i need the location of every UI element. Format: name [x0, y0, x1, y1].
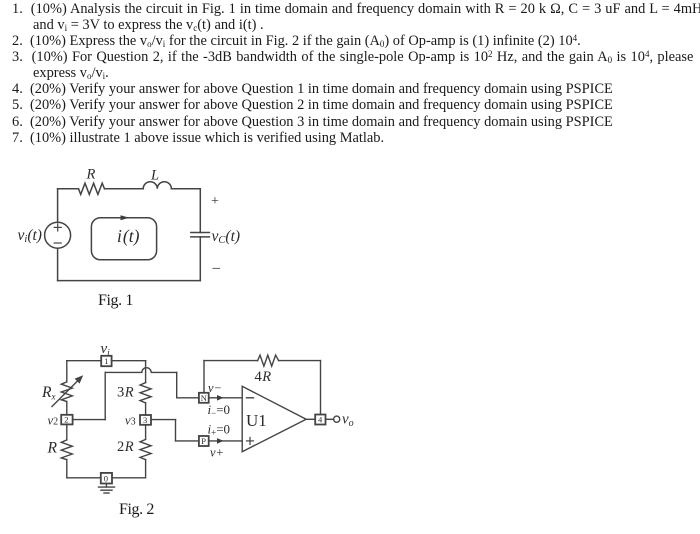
svg-text:N: N — [201, 393, 207, 403]
arrow N to op-amp minus input — [209, 397, 243, 399]
node P box — [199, 436, 209, 446]
capacitor C plates — [191, 232, 210, 234]
wire right vertical lower — [199, 237, 201, 281]
svg-text:2R: 2R — [117, 439, 134, 455]
svg-text:vi: vi — [101, 341, 111, 359]
wire from node3 right — [151, 419, 176, 421]
svg-text:v3: v3 — [125, 414, 136, 428]
resistor 3R zigzag — [140, 383, 151, 403]
svg-text:v2: v2 — [48, 414, 59, 428]
wire top left from node 1 to left corner — [67, 360, 101, 362]
svg-text:3: 3 — [143, 415, 147, 425]
svg-text:v−: v− — [208, 381, 222, 395]
wire apex to node 4 — [306, 418, 315, 420]
wire left vertical upper — [66, 361, 68, 382]
svg-text:vi(t): vi(t) — [18, 227, 42, 245]
node 4 box — [315, 415, 325, 425]
wire right vertical upper — [199, 189, 201, 233]
wire top from node 1 to 3R corner — [112, 360, 146, 362]
wire into node N — [177, 397, 199, 399]
wire v2 to N horizontal with hop — [105, 368, 177, 373]
svg-text:0: 0 — [104, 474, 108, 484]
wire bottom left — [67, 477, 101, 479]
svg-text:U1: U1 — [246, 411, 267, 430]
node 3 box — [140, 415, 151, 425]
svg-text:Rx: Rx — [41, 384, 55, 402]
wire from node2 right — [73, 419, 106, 421]
svg-text:v+: v+ — [210, 446, 224, 460]
svg-text:+: + — [211, 194, 219, 209]
svg-text:3R: 3R — [117, 385, 134, 401]
minus sign inside source — [54, 242, 61, 244]
svg-text:R: R — [47, 440, 58, 457]
svg-text:4: 4 — [318, 415, 323, 425]
op-amp plus sign — [247, 437, 254, 444]
wire bottom of Fig.1 loop — [58, 280, 201, 282]
wire into node P — [176, 440, 199, 442]
node 1 box — [101, 356, 111, 366]
wire top right segment — [171, 188, 200, 190]
figure 1 schematic — [0, 160, 260, 320]
arrow of variable resistor Rx — [52, 379, 80, 407]
question text block — [12, 2, 700, 16]
wire left vertical to bottom — [66, 460, 68, 478]
voltage source vi circle — [45, 222, 71, 248]
loop arrow head — [121, 215, 130, 220]
resistor Rx zigzag — [61, 382, 72, 402]
op-amp minus sign — [247, 397, 254, 399]
output terminal circle — [334, 416, 340, 422]
svg-text:P: P — [201, 436, 206, 446]
node 0 box — [101, 473, 112, 484]
wire 3R vertical upper — [145, 361, 147, 383]
caption Fig. 1 — [98, 293, 133, 309]
wire bottom left of Fig.1 loop — [57, 248, 59, 280]
resistor R zigzag (left branch) — [61, 440, 72, 460]
wire node 4 to output terminal — [326, 418, 334, 420]
wire left vertical below node 2 — [66, 424, 68, 440]
caption Fig. 2 — [119, 502, 154, 518]
svg-text:i+=0: i+=0 — [208, 422, 231, 438]
wire 2R vertical to bottom — [145, 460, 147, 478]
wire v3P vertical down — [175, 420, 177, 441]
resistor R zigzag — [79, 183, 105, 194]
feedback top wire left segment — [204, 360, 258, 362]
svg-text:2: 2 — [64, 415, 68, 425]
figure 2 schematic — [30, 335, 370, 510]
svg-text:L: L — [150, 168, 159, 184]
wire left vertical of Fig.1 loop — [57, 189, 59, 222]
svg-text:4R: 4R — [255, 369, 272, 385]
wire v2N vertical down — [176, 372, 178, 397]
feedback top wire right segment — [279, 360, 321, 362]
svg-text:i−=0: i−=0 — [208, 402, 231, 418]
wire v2 vertical up — [104, 372, 106, 419]
wire left vertical between Rx and node 2 — [66, 402, 68, 415]
wire top middle segment — [105, 188, 144, 190]
wire bottom right — [112, 477, 145, 479]
resistor 4R zigzag (feedback) — [258, 355, 279, 366]
arrow P to op-amp plus input — [209, 440, 243, 442]
wire 3R vertical below node 3 — [145, 425, 147, 440]
wire top left segment — [58, 188, 79, 190]
wire 3R vertical lower to node 3 — [145, 403, 147, 415]
svg-text:vo: vo — [342, 411, 354, 429]
node N box — [199, 393, 209, 403]
plus sign inside source — [54, 224, 61, 231]
svg-text:i(t): i(t) — [117, 226, 140, 246]
feedback wire up from N — [203, 361, 205, 393]
ground symbol — [105, 484, 107, 487]
svg-text:R: R — [86, 167, 96, 183]
feedback vertical down to node 4 — [320, 361, 322, 415]
op-amp U1 triangle — [242, 386, 306, 451]
node 2 box — [61, 415, 72, 425]
loop current rounded rectangle — [91, 218, 156, 260]
svg-text:–: – — [212, 260, 221, 276]
resistor 2R zigzag — [140, 439, 151, 459]
svg-text:vC(t): vC(t) — [212, 228, 241, 246]
inductor L — [143, 182, 171, 189]
